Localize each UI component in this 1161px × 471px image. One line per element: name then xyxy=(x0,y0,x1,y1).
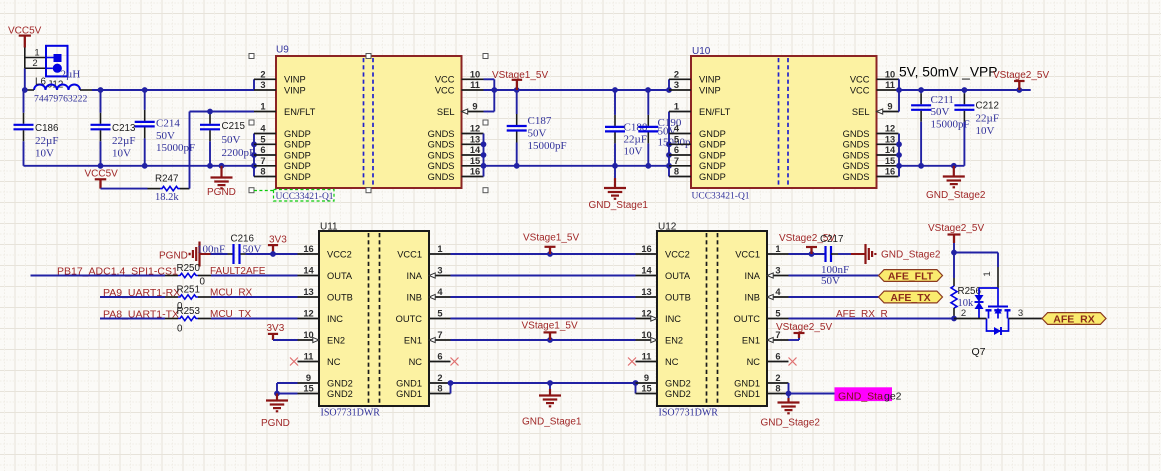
capacitor C187 xyxy=(516,90,518,114)
svg-text:50V: 50V xyxy=(243,244,262,256)
svg-text:VStage2_5V: VStage2_5V xyxy=(776,322,832,333)
svg-text:GNDS: GNDS xyxy=(428,140,455,150)
svg-text:UCC33421-Q1: UCC33421-Q1 xyxy=(692,192,750,202)
svg-text:1: 1 xyxy=(982,271,993,276)
svg-text:12: 12 xyxy=(641,309,651,319)
svg-text:22µF: 22µF xyxy=(976,113,999,125)
capacitor C217 xyxy=(824,246,826,262)
svg-text:GNDP: GNDP xyxy=(699,172,726,182)
svg-text:EN2: EN2 xyxy=(327,335,345,345)
svg-text:INC: INC xyxy=(665,314,681,324)
ground PGND (left) xyxy=(220,166,222,178)
svg-text:C217: C217 xyxy=(820,234,843,245)
svg-text:VCC: VCC xyxy=(850,85,870,95)
wire U10 VCC bus xyxy=(898,78,901,80)
capacitor C186 xyxy=(23,90,25,113)
svg-text:VCC2: VCC2 xyxy=(665,249,690,259)
svg-text:SEL: SEL xyxy=(852,107,870,117)
svg-text:8: 8 xyxy=(260,167,265,177)
svg-text:6: 6 xyxy=(674,145,679,155)
port AFE_RX xyxy=(1042,313,1106,325)
wire OUTC-INC row xyxy=(451,318,636,320)
svg-text:GND1: GND1 xyxy=(734,389,760,399)
ic U9 UCC33421-Q1 xyxy=(276,56,462,188)
svg-text:PGND: PGND xyxy=(261,418,290,429)
power port VStage1_5V (EN1) xyxy=(544,331,557,333)
svg-text:C211: C211 xyxy=(931,94,954,106)
svg-text:GNDS: GNDS xyxy=(843,161,870,171)
svg-text:5: 5 xyxy=(437,309,442,319)
wire U12 GND2 bus xyxy=(635,383,637,394)
svg-text:R247: R247 xyxy=(155,174,178,185)
port AFE_TX xyxy=(879,291,943,303)
ground GND_Stage2 (rotated, at C217) xyxy=(851,253,866,255)
resistor R253 xyxy=(178,316,198,320)
wire R250 to U11 OUTA xyxy=(198,275,211,277)
svg-text:OUTB: OUTB xyxy=(665,292,691,302)
svg-text:2µH: 2µH xyxy=(61,69,81,81)
svg-text:PGND: PGND xyxy=(159,251,188,262)
svg-text:4: 4 xyxy=(437,287,443,297)
wire EN1-EN2 row xyxy=(451,339,636,341)
wire U11 GND2 bus to PGND xyxy=(277,382,298,384)
svg-text:U10: U10 xyxy=(692,46,711,57)
svg-text:VCC: VCC xyxy=(850,75,870,85)
wire 3V3 to U11 EN2 xyxy=(273,339,298,341)
svg-text:EN2: EN2 xyxy=(665,335,683,345)
svg-text:15: 15 xyxy=(470,156,480,166)
svg-text:GNDS: GNDS xyxy=(843,172,870,182)
wire VStage2_5V down to R256 xyxy=(953,243,955,278)
svg-text:10V: 10V xyxy=(976,125,995,137)
svg-text:18.2k: 18.2k xyxy=(155,192,179,203)
svg-text:GNDS: GNDS xyxy=(428,129,455,139)
svg-text:GNDS: GNDS xyxy=(843,129,870,139)
capacitor C211 xyxy=(920,90,922,93)
svg-text:C186: C186 xyxy=(35,123,59,134)
svg-text:GND2: GND2 xyxy=(327,389,353,399)
svg-text:15: 15 xyxy=(641,384,651,394)
svg-text:4: 4 xyxy=(674,124,680,134)
svg-text:7: 7 xyxy=(674,156,679,166)
svg-text:C187: C187 xyxy=(528,115,552,127)
svg-text:9: 9 xyxy=(644,373,649,383)
wire GND_Stage2 rail (right) xyxy=(899,165,965,167)
svg-text:4: 4 xyxy=(775,287,781,297)
svg-text:2: 2 xyxy=(674,69,679,79)
wire PB17 to R250 xyxy=(31,275,166,277)
ground PGND (rotated, at C216) xyxy=(198,242,200,267)
svg-text:OUTB: OUTB xyxy=(327,292,353,302)
ground PGND (U11) xyxy=(276,394,278,401)
svg-text:GNDP: GNDP xyxy=(284,172,311,182)
svg-text:NC: NC xyxy=(665,357,679,367)
svg-text:INB: INB xyxy=(407,292,423,302)
svg-text:7: 7 xyxy=(437,330,442,340)
svg-text:GNDP: GNDP xyxy=(284,150,311,160)
wire R247 to EN/FLT U9 xyxy=(180,188,190,190)
svg-text:NC: NC xyxy=(327,357,341,367)
svg-text:13: 13 xyxy=(470,134,480,144)
svg-text:1: 1 xyxy=(34,48,39,59)
svg-text:9: 9 xyxy=(472,102,477,112)
svg-text:INC: INC xyxy=(327,314,343,324)
wire R253 to U11 INC xyxy=(198,318,211,320)
svg-text:16: 16 xyxy=(641,244,651,254)
svg-text:UCC33421-Q1: UCC33421-Q1 xyxy=(276,192,334,202)
svg-text:14: 14 xyxy=(303,266,314,276)
no connect U11 pin 11 xyxy=(290,358,298,366)
svg-text:GNDP: GNDP xyxy=(699,150,726,160)
svg-text:3: 3 xyxy=(674,80,679,90)
wire VCC5V top rail xyxy=(25,89,34,91)
svg-text:OUTA: OUTA xyxy=(665,271,691,281)
wire PA9 to R251 xyxy=(100,296,165,298)
svg-text:2: 2 xyxy=(775,373,780,383)
svg-text:VStage1_5V: VStage1_5V xyxy=(523,233,579,244)
svg-text:GNDP: GNDP xyxy=(284,161,311,171)
svg-text:5V, 50mV _VPP: 5V, 50mV _VPP xyxy=(899,65,997,80)
svg-text:GNDP: GNDP xyxy=(284,129,311,139)
svg-text:VCC: VCC xyxy=(435,75,455,85)
resistor R251 xyxy=(178,295,198,299)
net label GND_Stage2 (magenta highlight) xyxy=(835,387,893,401)
svg-text:16: 16 xyxy=(885,167,895,177)
svg-text:22µF: 22µF xyxy=(624,134,647,146)
svg-text:GND2: GND2 xyxy=(327,378,353,388)
svg-text:3V3: 3V3 xyxy=(267,323,285,334)
svg-text:74479763222: 74479763222 xyxy=(34,94,87,105)
svg-text:GND2: GND2 xyxy=(665,378,691,388)
ground GND_Stage2 (top) xyxy=(953,166,955,177)
svg-text:VStage2_5V: VStage2_5V xyxy=(993,70,1049,81)
svg-text:2200pF: 2200pF xyxy=(222,147,256,159)
capacitor C213 xyxy=(100,90,102,113)
svg-text:PGND: PGND xyxy=(207,187,236,198)
svg-text:GNDS: GNDS xyxy=(428,161,455,171)
wire GND_Stage1 rail (bottom) xyxy=(451,382,636,384)
resistor R250 xyxy=(178,273,198,277)
power port VStage2_5V (VCC1) xyxy=(806,246,817,248)
svg-text:3V3: 3V3 xyxy=(269,235,287,246)
svg-text:2: 2 xyxy=(32,58,37,69)
comment UCC33421-Q1 with selection box xyxy=(254,190,274,192)
ic U11 ISO7731DWR xyxy=(319,231,429,406)
svg-text:C212: C212 xyxy=(976,101,999,112)
svg-text:0: 0 xyxy=(177,324,183,335)
svg-text:EN/FLT: EN/FLT xyxy=(699,107,731,117)
svg-text:3: 3 xyxy=(260,80,265,90)
capacitor C212 xyxy=(963,90,965,93)
svg-text:GNDS: GNDS xyxy=(428,172,455,182)
svg-text:U9: U9 xyxy=(276,45,289,56)
svg-text:GNDS: GNDS xyxy=(843,150,870,160)
svg-text:GNDP: GNDP xyxy=(699,140,726,150)
svg-text:ISO7731DWR: ISO7731DWR xyxy=(321,408,381,419)
wire VCC rail right (VStage2_5V) xyxy=(899,89,1031,91)
svg-text:SEL: SEL xyxy=(437,107,455,117)
svg-text:10V: 10V xyxy=(624,146,643,158)
svg-text:16: 16 xyxy=(303,244,313,254)
svg-text:GND1: GND1 xyxy=(396,389,422,399)
svg-text:R251: R251 xyxy=(177,285,200,296)
ic U10 UCC33421-Q1 xyxy=(691,56,877,188)
svg-text:EN/FLT: EN/FLT xyxy=(284,107,316,117)
svg-text:16: 16 xyxy=(470,167,480,177)
svg-text:50V: 50V xyxy=(222,134,241,146)
svg-text:Q7: Q7 xyxy=(972,346,986,358)
wire U9 GNDP bus xyxy=(253,134,255,177)
svg-text:C215: C215 xyxy=(222,121,246,132)
svg-text:22µF: 22µF xyxy=(35,135,58,147)
svg-text:VCC1: VCC1 xyxy=(397,249,422,259)
ground GND_Stage2 (below U12) xyxy=(788,394,790,399)
svg-text:GNDP: GNDP xyxy=(699,129,726,139)
wire INB U12 to AFE_TX xyxy=(789,296,879,298)
wire VCC5V to J12 pins xyxy=(24,48,26,69)
svg-text:VINP: VINP xyxy=(699,75,721,85)
svg-text:GND1: GND1 xyxy=(396,378,422,388)
power port VStage2_5V (EN1) xyxy=(794,332,805,334)
svg-text:6: 6 xyxy=(775,352,780,362)
wire INA U12 to AFE_FLT xyxy=(789,275,879,277)
svg-text:VCC2: VCC2 xyxy=(327,249,352,259)
svg-text:3: 3 xyxy=(1018,308,1023,319)
svg-text:2: 2 xyxy=(437,373,442,383)
svg-text:9: 9 xyxy=(887,102,892,112)
svg-text:12: 12 xyxy=(303,309,313,319)
svg-text:5: 5 xyxy=(260,134,265,144)
no connect U12 pin 6 xyxy=(789,358,797,366)
svg-text:14: 14 xyxy=(885,145,896,155)
svg-text:5: 5 xyxy=(775,309,780,319)
svg-text:R250: R250 xyxy=(177,263,201,274)
no connect U11 pin 6 xyxy=(451,358,459,366)
svg-text:1: 1 xyxy=(674,102,679,112)
svg-text:AFE_FLT: AFE_FLT xyxy=(888,271,934,283)
svg-text:GNDP: GNDP xyxy=(699,161,726,171)
wire U10 left bus xyxy=(668,79,670,90)
svg-text:50V: 50V xyxy=(156,130,175,142)
svg-text:VINP: VINP xyxy=(284,85,306,95)
capacitor C214 xyxy=(144,90,146,110)
svg-text:22µF: 22µF xyxy=(112,135,135,147)
svg-text:9: 9 xyxy=(306,373,311,383)
transistor Q7 xyxy=(979,287,998,289)
svg-text:OUTC: OUTC xyxy=(396,314,423,324)
wire R256 to AFE_RX_R net xyxy=(953,308,955,316)
wire GND bottom-left rail xyxy=(24,165,255,167)
capacitor C215 xyxy=(209,112,211,113)
svg-text:L6: L6 xyxy=(35,77,46,88)
svg-text:0: 0 xyxy=(200,277,206,288)
svg-text:GND_Stage1: GND_Stage1 xyxy=(589,200,649,211)
no connect U12 pin 11 xyxy=(628,358,636,366)
svg-text:6: 6 xyxy=(260,145,265,155)
svg-text:VCC5V: VCC5V xyxy=(85,169,119,180)
svg-text:12: 12 xyxy=(470,124,480,134)
svg-text:8: 8 xyxy=(775,384,780,394)
svg-text:6: 6 xyxy=(437,352,442,362)
wire VCC1 U12 to C217 xyxy=(789,253,826,255)
wire VStage1_5V (VCC1 row) xyxy=(451,253,636,255)
svg-text:11: 11 xyxy=(304,352,314,362)
svg-text:10: 10 xyxy=(303,330,313,340)
wire U9 GNDS bus xyxy=(483,134,485,177)
wire R251 to U11 OUTB xyxy=(198,296,211,298)
svg-text:13: 13 xyxy=(303,287,313,297)
svg-text:8: 8 xyxy=(437,384,442,394)
wire INA-OUTA row xyxy=(451,275,636,277)
svg-text:AFE_RX: AFE_RX xyxy=(1053,314,1094,326)
svg-text:GND_Sta: GND_Sta xyxy=(838,391,883,403)
capacitor C190 xyxy=(647,90,649,115)
svg-text:VStage1_5V: VStage1_5V xyxy=(522,321,578,332)
svg-text:GND1: GND1 xyxy=(734,378,760,388)
connector J12 xyxy=(46,46,68,77)
svg-text:GNDP: GNDP xyxy=(284,140,311,150)
svg-text:OUTA: OUTA xyxy=(327,271,353,281)
svg-text:EN1: EN1 xyxy=(742,335,760,345)
svg-text:OUTC: OUTC xyxy=(734,314,761,324)
svg-text:EN1: EN1 xyxy=(404,335,422,345)
svg-text:50V: 50V xyxy=(528,128,547,140)
svg-text:8: 8 xyxy=(674,167,679,177)
svg-text:4: 4 xyxy=(260,124,266,134)
wire loop to Q7 pin 1 xyxy=(954,252,998,254)
svg-text:2: 2 xyxy=(260,69,265,79)
port AFE_FLT xyxy=(879,270,943,282)
ic U12 ISO7731DWR xyxy=(657,231,767,406)
wire U9 VINP bus xyxy=(253,79,255,90)
svg-text:12: 12 xyxy=(885,124,895,134)
resistor R256 xyxy=(951,286,957,308)
svg-text:50V: 50V xyxy=(821,275,840,287)
svg-text:U11: U11 xyxy=(320,222,338,233)
svg-text:10: 10 xyxy=(885,69,895,79)
ground GND_Stage1 (top) xyxy=(614,166,616,178)
svg-text:15000pF: 15000pF xyxy=(528,140,567,152)
svg-text:GNDS: GNDS xyxy=(843,140,870,150)
svg-text:NC: NC xyxy=(409,357,423,367)
svg-text:INA: INA xyxy=(745,271,761,281)
selection handles of U9 xyxy=(249,54,254,59)
wire OUTC U12 to Q7 xyxy=(789,318,955,320)
svg-text:11: 11 xyxy=(885,80,895,90)
svg-text:11: 11 xyxy=(642,352,652,362)
svg-text:VCC1: VCC1 xyxy=(735,249,760,259)
Q7 lead pin3 xyxy=(1009,318,1043,320)
Q7 lead pin2 xyxy=(954,318,987,320)
wire PA8 to R253 xyxy=(100,318,165,320)
svg-text:C214: C214 xyxy=(156,118,180,130)
inductor L6 xyxy=(34,85,80,91)
svg-text:10V: 10V xyxy=(35,148,54,160)
svg-text:VCC: VCC xyxy=(435,85,455,95)
svg-text:15: 15 xyxy=(885,156,895,166)
wire VCC5V to R247 xyxy=(101,188,148,190)
wire U10 GNDS bus xyxy=(898,134,900,177)
svg-text:1: 1 xyxy=(775,244,780,254)
svg-text:10: 10 xyxy=(641,330,651,340)
svg-text:13: 13 xyxy=(641,287,651,297)
svg-text:ISO7731DWR: ISO7731DWR xyxy=(659,408,719,419)
svg-text:VStage2_5V: VStage2_5V xyxy=(928,223,984,234)
svg-text:7: 7 xyxy=(260,156,265,166)
svg-text:GND_Stage1: GND_Stage1 xyxy=(522,417,582,428)
svg-text:1: 1 xyxy=(260,102,265,112)
wire EN1 U12 xyxy=(789,339,800,341)
capacitor C188 xyxy=(614,90,616,115)
svg-text:15: 15 xyxy=(303,384,313,394)
svg-text:14: 14 xyxy=(470,145,481,155)
svg-text:3: 3 xyxy=(437,266,442,276)
svg-text:11: 11 xyxy=(470,80,480,90)
svg-text:AFE_TX: AFE_TX xyxy=(890,292,930,304)
ground GND_Stage1 (bottom) xyxy=(549,383,551,389)
svg-text:GND_Stage2: GND_Stage2 xyxy=(761,418,821,429)
resistor R247 xyxy=(160,186,180,190)
svg-text:GND2: GND2 xyxy=(665,389,691,399)
wire INB-OUTB row xyxy=(451,296,636,298)
svg-text:10: 10 xyxy=(470,69,480,79)
svg-text:GND_Stage2: GND_Stage2 xyxy=(926,190,986,201)
svg-text:2: 2 xyxy=(961,308,966,319)
svg-text:14: 14 xyxy=(641,266,652,276)
svg-text:GNDS: GNDS xyxy=(428,150,455,160)
wire U12 GND1 bus to grounds xyxy=(788,383,790,394)
wire U11 GND1 bus xyxy=(450,383,452,394)
svg-text:NC: NC xyxy=(747,357,761,367)
wire U9 VCC bus to rail xyxy=(484,78,495,80)
svg-text:13: 13 xyxy=(885,134,895,144)
svg-text:3: 3 xyxy=(775,266,780,276)
wire GND_Stage1 rail (U9-U10) xyxy=(484,165,670,167)
svg-text:GND_Stage2: GND_Stage2 xyxy=(881,250,941,261)
svg-text:10V: 10V xyxy=(112,148,131,160)
svg-text:VINP: VINP xyxy=(284,75,306,85)
svg-text:U12: U12 xyxy=(658,222,677,233)
svg-text:C213: C213 xyxy=(112,123,136,134)
svg-text:R253: R253 xyxy=(177,306,201,317)
svg-text:INB: INB xyxy=(745,292,761,302)
svg-text:ge2: ge2 xyxy=(884,391,902,403)
svg-text:VINP: VINP xyxy=(699,85,721,95)
svg-text:100nF: 100nF xyxy=(197,244,225,256)
svg-text:INA: INA xyxy=(407,271,423,281)
svg-text:50V: 50V xyxy=(931,106,950,118)
svg-text:1: 1 xyxy=(437,244,442,254)
capacitor C216 xyxy=(211,253,228,255)
svg-text:5: 5 xyxy=(674,134,679,144)
